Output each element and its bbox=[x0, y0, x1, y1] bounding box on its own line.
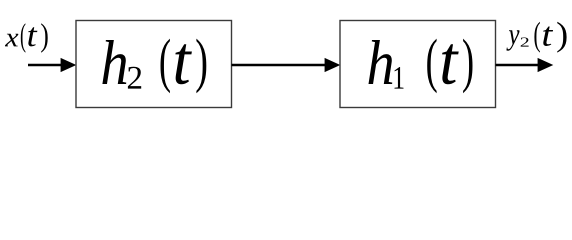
node y2(t) output label bbox=[506, 22, 566, 53]
label h2(t) bbox=[102, 39, 206, 94]
block h2 box bbox=[76, 21, 232, 108]
label h1(t) bbox=[369, 39, 473, 94]
node x(t) input label bbox=[5, 23, 48, 52]
wire input arrow into h2 bbox=[28, 58, 76, 72]
wire arrow h2 to h1 bbox=[232, 58, 341, 72]
block h1 box bbox=[340, 21, 496, 108]
wire output arrow from h1 bbox=[496, 58, 554, 72]
